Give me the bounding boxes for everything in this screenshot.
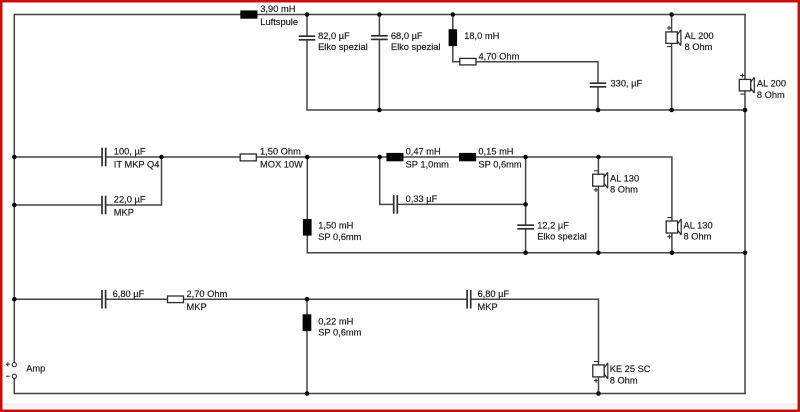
- junction woofer return / 330uF: [596, 108, 601, 113]
- wire KE25 vertical: [598, 299, 600, 394]
- wire 68uF shunt upper: [378, 15, 380, 36]
- wire 82uF shunt upper: [306, 15, 308, 37]
- svg-text:AL 130: AL 130: [684, 220, 713, 230]
- wire AL130 no2 vertical: [671, 156, 673, 253]
- inductor 0,22 mH SP 0,6mm: [303, 314, 362, 337]
- svg-text:1,50 mH: 1,50 mH: [318, 221, 353, 231]
- svg-text:330, µF: 330, µF: [611, 78, 643, 88]
- svg-text:0,15 mH: 0,15 mH: [478, 147, 513, 157]
- svg-text:SP 0,6mm: SP 0,6mm: [478, 160, 521, 170]
- wire resistor 4,70 Ohm to 330uF corner: [476, 61, 599, 63]
- wire Amp minus to bottom rail: [13, 378, 15, 394]
- Amp terminals: [6, 362, 45, 378]
- svg-text:Elko spezial: Elko spezial: [391, 42, 441, 52]
- speaker AL 130 no2: [666, 218, 712, 242]
- junction tweeter rail / 0,22mH shunt: [305, 297, 310, 302]
- svg-text:8 Ohm: 8 Ohm: [685, 42, 713, 52]
- svg-text:AL 200: AL 200: [757, 79, 786, 89]
- svg-text:6,80 µF: 6,80 µF: [113, 289, 145, 299]
- svg-text:Luftspule: Luftspule: [260, 17, 298, 27]
- svg-text:0,33 µF: 0,33 µF: [406, 194, 438, 204]
- wire 68uF shunt lower: [378, 39, 380, 110]
- capacitor 12,2 uF Elko spezial: [517, 220, 587, 241]
- wire right rail: [744, 14, 746, 394]
- wire 0,33uF branch left of cap: [379, 203, 394, 205]
- resistor 1,50 Ohm MOX 10W: [240, 147, 303, 170]
- capacitor 82,0 uF Elko spezial: [299, 31, 368, 52]
- capacitor 6,80 uF first: [101, 289, 144, 309]
- wire AL200 no1 vertical: [671, 15, 673, 111]
- wire woofer return rail: [306, 109, 745, 111]
- svg-text:3,90 mH: 3,90 mH: [260, 4, 295, 14]
- junction top rail / 18mH branch: [451, 12, 456, 17]
- junction mid return / AL130 no1: [596, 251, 601, 256]
- svg-text:0,47 mH: 0,47 mH: [406, 147, 441, 157]
- junction mid return / right rail: [743, 251, 748, 256]
- wire mid return rail: [307, 252, 746, 254]
- junction woofer return / AL200 no1: [669, 108, 674, 113]
- junction woofer return / right rail: [743, 108, 748, 113]
- speaker AL 200 no1: [666, 26, 714, 52]
- junction top rail / AL200 no1: [669, 12, 674, 17]
- wire 330uF upper: [597, 61, 599, 83]
- wire AL130 no1 vertical: [597, 157, 599, 253]
- wire mid rail right of 100uF: [106, 156, 672, 158]
- junction mid rail / 22uF branch: [159, 155, 164, 160]
- wire left rail from Amp + up to top-left corner: [13, 14, 15, 363]
- capacitor 330, uF: [590, 78, 643, 88]
- capacitor 68,0 uF Elko spezial: [371, 31, 440, 52]
- svg-text:68,0 µF: 68,0 µF: [391, 31, 423, 41]
- svg-text:8 Ohm: 8 Ohm: [610, 375, 638, 385]
- junction left rail / tweeter rail: [12, 297, 17, 302]
- wire top rail: [14, 14, 746, 16]
- svg-text:1,50 Ohm: 1,50 Ohm: [260, 147, 301, 157]
- wire 18mH corner to resistor: [452, 61, 460, 63]
- junction left rail / 22uF branch: [12, 203, 17, 208]
- wire 330uF lower: [597, 87, 599, 110]
- svg-text:AL 200: AL 200: [685, 31, 714, 41]
- svg-text:MKP: MKP: [478, 302, 498, 312]
- junction mid rail / 0,33uF branch: [377, 155, 382, 160]
- wire 22uF branch vertical up: [161, 156, 163, 205]
- svg-text:AL 130: AL 130: [610, 174, 639, 184]
- inductor 0,15 mH SP 0,6mm: [459, 147, 522, 170]
- wire 0,22mH shunt: [306, 299, 308, 394]
- wire 1,50mH shunt: [306, 157, 308, 254]
- capacitor 0,33 uF: [393, 194, 438, 214]
- junction mid rail / 12,2uF shunt: [523, 155, 528, 160]
- svg-text:8 Ohm: 8 Ohm: [757, 90, 785, 100]
- speaker KE 25 SC: [593, 362, 651, 386]
- bottom light band: [3, 403, 797, 409]
- inductor 3,90 mH Luftspule: [240, 4, 298, 27]
- capacitor 100, uF IT MKP Q4: [101, 147, 159, 170]
- wire tweeter rail right of second 6,80uF: [471, 298, 599, 300]
- junction mid return / AL130 no2: [670, 251, 675, 256]
- svg-text:82,0 µF: 82,0 µF: [318, 31, 350, 41]
- svg-text:SP 1,0mm: SP 1,0mm: [406, 160, 449, 170]
- wire tweeter rail middle: [106, 298, 468, 300]
- junction top rail / 82uF: [305, 12, 310, 17]
- junction woofer return / 68uF: [377, 108, 382, 113]
- svg-text:0,22 mH: 0,22 mH: [318, 316, 353, 326]
- svg-text:22,0 µF: 22,0 µF: [114, 195, 146, 205]
- resistor 2,70 Ohm MKP: [168, 289, 228, 312]
- junction bottom rail / KE25: [596, 391, 601, 396]
- wire 12,2uF shunt lower: [525, 229, 527, 254]
- svg-text:12,2 µF: 12,2 µF: [537, 220, 569, 230]
- svg-text:Elko spezial: Elko spezial: [318, 42, 368, 52]
- wire mid rail left of 100uF: [14, 156, 102, 158]
- wire 12,2uF shunt upper: [525, 157, 527, 225]
- svg-text:Amp: Amp: [26, 363, 45, 373]
- wire 22uF branch right: [106, 204, 162, 206]
- svg-text:2,70 Ohm: 2,70 Ohm: [187, 289, 228, 299]
- wire 18mH branch vertical: [452, 15, 454, 62]
- wire tweeter rail left of 6,80uF: [14, 298, 102, 300]
- svg-text:8 Ohm: 8 Ohm: [684, 231, 712, 241]
- capacitor 6,80 uF second MKP: [466, 289, 509, 312]
- junction mid rail / 1,50mH shunt: [305, 155, 310, 160]
- wire main bottom rail: [14, 393, 746, 395]
- svg-text:Elko spezial: Elko spezial: [537, 232, 587, 242]
- junction 0,33uF branch / 12,2uF shunt: [523, 202, 528, 207]
- wire 0,33uF branch vertical down: [379, 157, 381, 205]
- junction mid rail / AL130 no1: [596, 155, 601, 160]
- svg-text:MOX 10W: MOX 10W: [260, 160, 303, 170]
- capacitor 22,0 uF MKP: [101, 195, 146, 218]
- svg-text:8 Ohm: 8 Ohm: [610, 185, 638, 195]
- svg-text:MKP: MKP: [187, 302, 207, 312]
- svg-text:100, µF: 100, µF: [114, 147, 146, 157]
- junction bottom rail / 0,22mH shunt: [305, 391, 310, 396]
- speaker AL 200 no2: [739, 73, 786, 99]
- wire 82uF shunt lower: [306, 40, 308, 110]
- svg-text:18,0 mH: 18,0 mH: [464, 31, 499, 41]
- junction left rail / mid rail: [12, 155, 17, 160]
- svg-text:SP 0,6mm: SP 0,6mm: [318, 327, 361, 337]
- speaker AL 130 no1: [593, 171, 639, 195]
- svg-text:SP 0,6mm: SP 0,6mm: [318, 232, 361, 242]
- svg-text:IT MKP Q4: IT MKP Q4: [114, 160, 160, 170]
- junction top rail / 68uF: [377, 12, 382, 17]
- svg-text:KE 25 SC: KE 25 SC: [610, 364, 651, 374]
- inductor 18,0 mH: [449, 29, 500, 46]
- svg-text:MKP: MKP: [114, 208, 134, 218]
- svg-text:6,80 µF: 6,80 µF: [478, 289, 510, 299]
- junction mid return / 12,2uF: [523, 251, 528, 256]
- svg-text:4,70 Ohm: 4,70 Ohm: [479, 51, 520, 61]
- resistor 4,70 Ohm: [460, 51, 520, 65]
- wire 0,33uF branch right of cap: [397, 203, 525, 205]
- inductor 0,47 mH SP 1,0mm: [386, 147, 449, 170]
- wire 22uF branch left: [14, 204, 102, 206]
- inductor 1,50 mH SP 0,6mm: [303, 219, 362, 242]
